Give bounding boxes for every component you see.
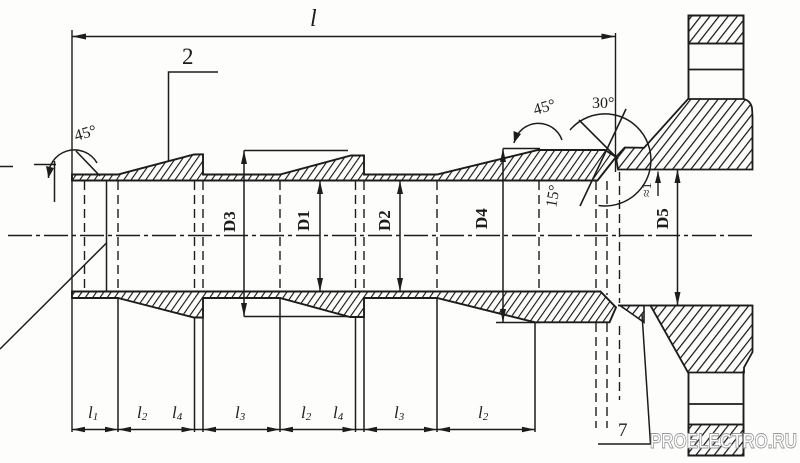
svg-text:D4: D4	[472, 208, 491, 229]
hidden line x355	[355, 181, 357, 291]
svg-text:≈1: ≈1	[640, 182, 655, 197]
30 deg arc	[570, 114, 651, 206]
svg-text:7: 7	[618, 420, 628, 441]
svg-text:D3: D3	[220, 211, 239, 232]
bore bottom edge line	[618, 305, 753, 307]
svg-text:2: 2	[182, 44, 194, 69]
boundary line x203 lower	[202, 318, 204, 432]
upper rim groove line 1	[689, 69, 744, 71]
dimension l line	[72, 36, 616, 38]
hidden line x280	[279, 181, 281, 291]
upper flange rim outline	[689, 16, 744, 100]
svg-text:D1: D1	[294, 210, 313, 231]
svg-text:45°: 45°	[72, 122, 98, 145]
svg-text:D5: D5	[653, 208, 672, 229]
lower flange rim outline	[689, 373, 744, 456]
hidden line x194	[194, 181, 196, 291]
hidden line x364	[363, 181, 365, 291]
chamfer 45 construction line left	[76, 151, 100, 176]
svg-text:l2: l2	[478, 403, 489, 423]
approx 1 arrow	[657, 172, 659, 197]
bottom dimension chain line	[72, 429, 535, 431]
lower flange hub	[651, 306, 753, 373]
svg-text:D2: D2	[375, 210, 394, 231]
hidden line x539	[538, 181, 540, 291]
lower rim hatched band	[689, 425, 744, 456]
section edge x106	[106, 181, 108, 291]
boundary line x118 lower	[117, 298, 119, 432]
svg-text:PROELECTRO.RU: PROELECTRO.RU	[650, 430, 797, 453]
svg-text:45°: 45°	[531, 96, 557, 119]
chamfer 45 arc left	[48, 150, 97, 178]
upper rim hatched band	[689, 16, 744, 44]
svg-text:l2: l2	[137, 403, 148, 423]
lower rim groove line 1	[689, 403, 744, 405]
boundary line x364 lower	[363, 318, 365, 433]
svg-text:l4: l4	[172, 403, 183, 423]
left extension line	[71, 30, 73, 432]
dimension D1	[317, 181, 323, 292]
construction line A 45	[579, 120, 618, 159]
hidden line x596	[595, 181, 597, 428]
lower shaft band profile	[72, 292, 616, 323]
small edge dimension left	[34, 164, 56, 166]
hidden line x118	[117, 181, 119, 291]
boundary line x280 lower	[279, 298, 281, 432]
hidden line x84	[84, 181, 86, 291]
centerline	[8, 235, 753, 237]
svg-text:15°: 15°	[543, 184, 564, 209]
dimension D3	[241, 151, 348, 317]
hidden line x437	[436, 181, 438, 291]
svg-text:l2: l2	[301, 403, 312, 423]
svg-text:l: l	[310, 6, 317, 32]
bottom section labels	[88, 403, 489, 423]
right extension line of l	[615, 33, 617, 172]
dimension D4	[496, 149, 540, 323]
hidden line x607	[606, 181, 608, 428]
svg-text:l3: l3	[235, 403, 246, 423]
lower cone ring (item 7)	[620, 306, 644, 323]
dimension D2	[397, 181, 403, 292]
leader diagonal bottom left	[0, 243, 107, 349]
chain arrows	[72, 427, 535, 432]
dimension D5	[675, 170, 681, 306]
svg-text:l4: l4	[333, 403, 344, 423]
leader of label 7	[598, 314, 651, 444]
upper shaft band profile	[72, 150, 616, 181]
hidden line x203	[202, 181, 204, 291]
upper cone ring and flange hub	[616, 99, 753, 170]
construction line B 30	[580, 109, 626, 206]
svg-text:l3: l3	[394, 403, 405, 423]
hidden line x619	[619, 172, 621, 400]
boundary line x437 lower	[436, 298, 438, 432]
svg-text:l1: l1	[88, 403, 98, 423]
45 deg arc right	[514, 123, 562, 143]
boundary line x194 lower	[194, 318, 196, 432]
leader of label 2	[169, 72, 219, 162]
boundary line x535 lower	[534, 323, 536, 433]
boundary line x355 lower	[355, 318, 357, 433]
svg-text:30°: 30°	[592, 95, 614, 112]
